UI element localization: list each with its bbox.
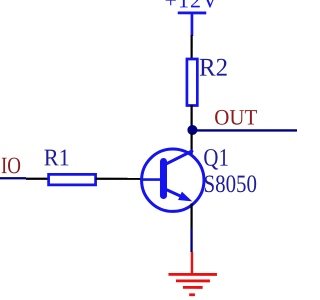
- svg-text:S8050: S8050: [203, 171, 257, 198]
- svg-text:OUT: OUT: [214, 105, 258, 130]
- wire emitter mid (navy): [190, 228, 192, 252]
- transistor Q1 collector stroke: [166, 151, 193, 165]
- transistor Q1 body circle: [142, 149, 204, 211]
- power stem wire (blue): [191, 14, 194, 36]
- svg-text:IO: IO: [1, 153, 21, 179]
- svg-text:Q1: Q1: [203, 145, 229, 172]
- wire node to Q1 collector: [190, 133, 192, 154]
- resistor R2: [187, 59, 197, 106]
- wire emitter to ground (red): [191, 252, 193, 274]
- wire IO to R1: [26, 178, 49, 180]
- wire node to OUT (right): [194, 129, 297, 131]
- wire Q1 emitter down (black): [190, 204, 192, 229]
- transistor Q1 base pin: [141, 178, 160, 181]
- svg-text:+12V: +12V: [165, 0, 219, 12]
- wire R2 to node: [191, 105, 193, 128]
- wire R1 to Q1 base: [96, 178, 142, 180]
- power bar symbol: [178, 12, 207, 15]
- transistor Q1 emitter stroke: [165, 189, 183, 197]
- transistor Q1 emitter arrowhead: [178, 192, 192, 202]
- wire IO stub (navy): [0, 177, 26, 179]
- resistor R1: [49, 174, 96, 185]
- svg-text:R1: R1: [44, 145, 70, 171]
- node junction: [187, 125, 197, 135]
- ground symbol: [168, 274, 217, 294]
- transistor Q1 base bar: [160, 158, 167, 199]
- svg-text:R2: R2: [199, 53, 228, 82]
- wire power to R2: [191, 35, 193, 60]
